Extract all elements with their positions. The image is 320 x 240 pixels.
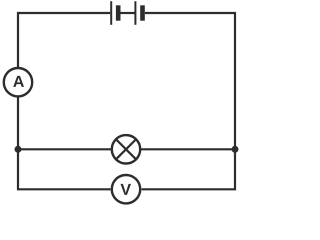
wire middle left segment: [18, 148, 112, 150]
battery B1: [111, 1, 145, 25]
lamp L1: [112, 135, 140, 163]
voltmeter V: [112, 175, 140, 203]
wire middle right segment: [140, 148, 235, 150]
label V (voltmeter): [121, 184, 131, 195]
junction node right: [232, 146, 239, 153]
wire top-left segment to battery: [18, 13, 110, 67]
label A (ammeter): [13, 76, 24, 87]
battery cell 2 long plate: [134, 1, 136, 25]
ammeter A: [4, 68, 32, 96]
battery cell 1 short plate: [116, 5, 121, 20]
wire between cells: [121, 12, 135, 14]
battery cell 2 short plate: [140, 5, 145, 20]
wire ammeter bottom to bottom-left corner to voltmeter: [18, 97, 111, 189]
junction node left: [15, 146, 22, 153]
battery cell 1 long plate: [110, 1, 112, 25]
wire battery to top-right corner and right side down: [142, 13, 235, 189]
